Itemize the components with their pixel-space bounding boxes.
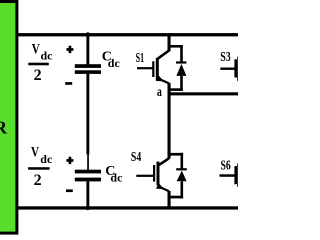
wire capacitor lower lead [86,181,89,208]
svg-text:dc: dc [108,56,121,70]
wire phase a rail [168,92,239,95]
svg-text:2: 2 [34,172,42,189]
transistor S4 IGBT [136,158,169,191]
polarity minus upper [65,82,72,85]
svg-text:V: V [31,145,39,161]
label Cdc lower [105,164,123,185]
label Cdc upper [102,49,121,69]
polarity minus lower [66,189,73,192]
diode D4 antiparallel [169,153,187,199]
svg-text:S4: S4 [131,150,141,165]
svg-text:R: R [0,118,8,138]
transistor S1 IGBT [137,34,171,83]
svg-text:a: a [157,85,162,100]
svg-text:S6: S6 [221,158,231,173]
svg-text:dc: dc [110,170,123,184]
svg-text:2: 2 [34,67,42,84]
wire bottom DC bus [18,206,238,209]
diode D1 antiparallel [169,45,186,91]
svg-text:S3: S3 [220,50,231,65]
wire capacitor midpoint link [86,74,89,170]
wire top DC bus [18,33,238,36]
svg-text:dc: dc [41,49,54,63]
wire phase leg [168,83,171,159]
wire capacitor upper lead [86,34,89,66]
label Vdc/2 lower [28,145,53,189]
wire S4 emitter to bottom bus [168,191,171,207]
rectifier source block [0,2,17,234]
svg-text:dc: dc [40,152,53,166]
node dot top bus / capacitor junction [86,32,91,37]
svg-text:S1: S1 [136,51,145,66]
transistor S3 IGBT partial [220,57,238,81]
transistor S6 IGBT partial [220,163,239,187]
label Vdc/2 upper [28,42,53,84]
node dot bottom bus / capacitor junction [86,206,91,211]
polarity plus upper [66,46,73,53]
capacitor Cdc upper [75,64,101,74]
svg-text:V: V [32,42,40,58]
polarity plus lower [66,157,73,164]
capacitor Cdc lower [75,170,101,182]
